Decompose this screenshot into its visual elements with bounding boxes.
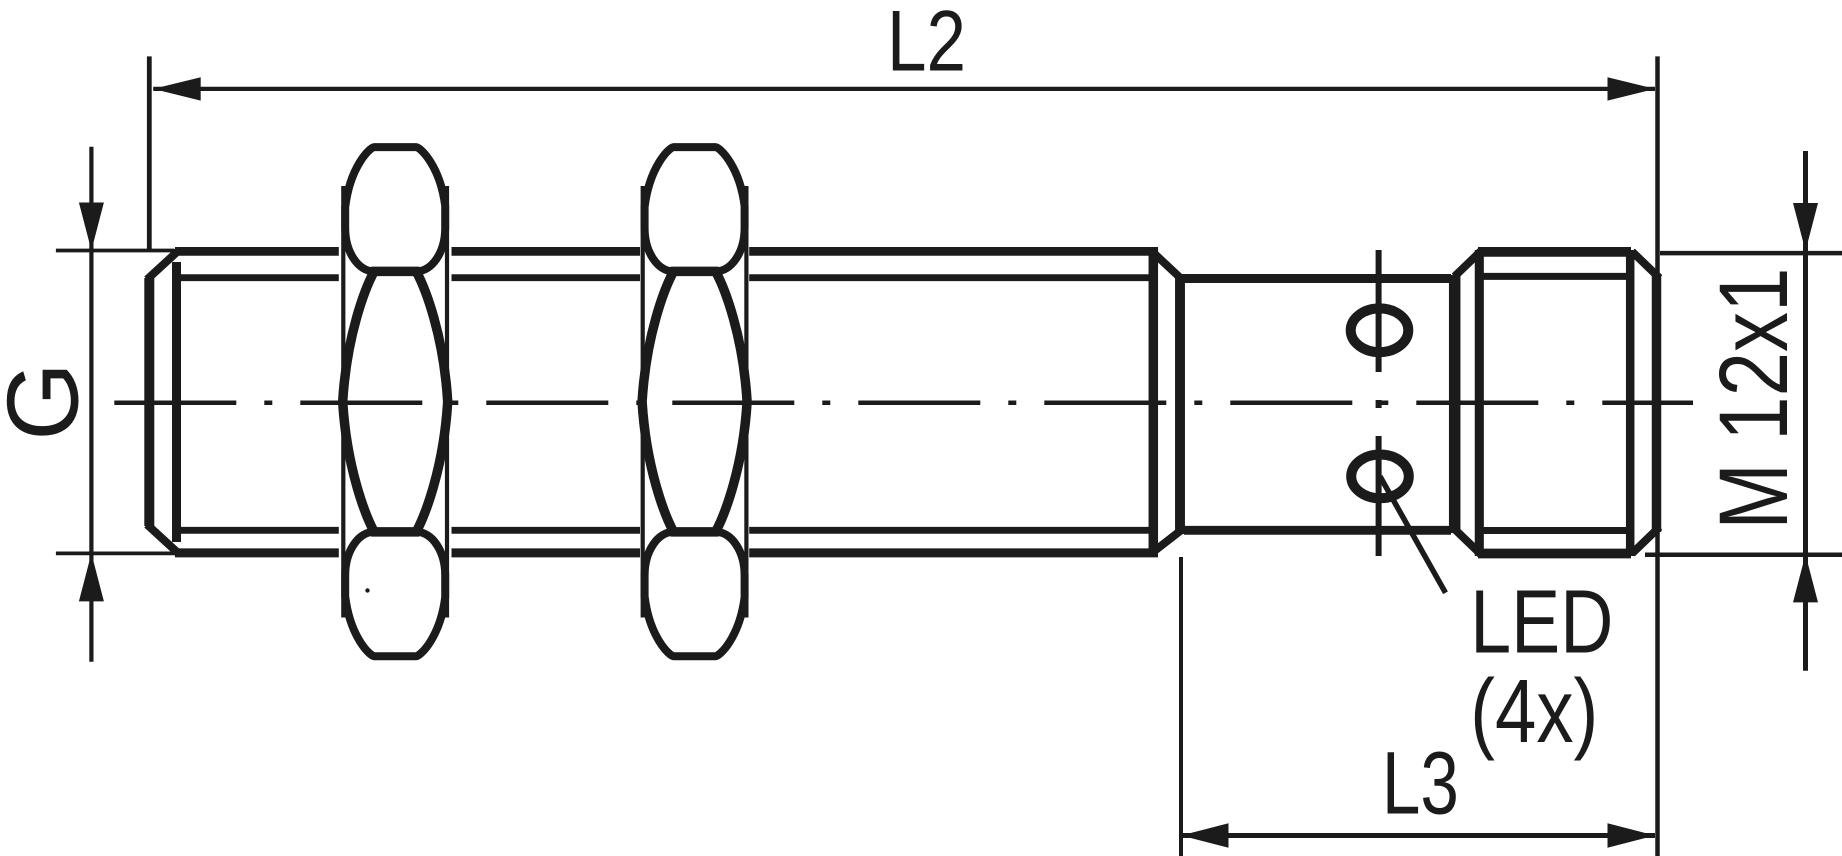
connector top-left chamfer <box>1455 251 1482 277</box>
barrel left chamfer edge vertical <box>172 262 181 542</box>
M12x1 top arrowhead <box>1793 203 1818 251</box>
hex nut 2 bottom chamfer egg <box>645 532 745 656</box>
hex nut 2 right side edge <box>744 186 748 618</box>
barrel left end face edge <box>144 278 154 526</box>
hex nut 1 middle lens <box>343 271 448 532</box>
G top tick line <box>56 249 174 253</box>
M12x1 top extension line <box>1660 251 1842 256</box>
G bottom tick line <box>56 552 176 556</box>
neck left edge <box>1175 274 1185 534</box>
connector right end edge <box>1652 275 1662 532</box>
L3 left arrowhead <box>1181 823 1229 847</box>
connector root bottom line <box>1481 527 1630 534</box>
thread root bottom line of barrel <box>178 527 1150 534</box>
LED leader line <box>1380 476 1446 592</box>
L3 dimension line <box>1182 833 1655 838</box>
small speck artifact <box>365 588 369 592</box>
barrel left top chamfer <box>147 252 178 280</box>
neck bottom line <box>1184 526 1451 535</box>
L3 left extension line <box>1179 557 1183 856</box>
connector left face edge <box>1449 275 1461 533</box>
M12x1 dimension line vertical <box>1803 151 1808 671</box>
connector bottom-left chamfer <box>1455 529 1482 555</box>
connector crest top line <box>1478 247 1631 257</box>
hex nut 1 left side edge <box>341 186 345 618</box>
barrel right end face edge <box>1149 249 1159 556</box>
barrel left bottom chamfer <box>147 525 178 553</box>
G bottom arrowhead <box>79 553 104 601</box>
L3 right arrowhead <box>1608 823 1656 847</box>
white mask under hex nut 2 <box>640 241 749 563</box>
L2 left arrowhead <box>153 77 201 100</box>
right vertical extension line (L2 top, L3 bottom) <box>1655 56 1660 856</box>
hex nut 1 right side edge <box>445 186 449 618</box>
connector top-right chamfer <box>1632 252 1660 279</box>
svg-text:L3: L3 <box>1382 732 1459 832</box>
G dimension line vertical <box>89 147 93 662</box>
connector bottom-right chamfer <box>1632 527 1660 554</box>
G top arrowhead <box>79 203 104 251</box>
L2 dimension line <box>153 87 1655 91</box>
hex nut 2 middle lens <box>642 271 747 532</box>
connector right chamfer edge vertical <box>1626 250 1635 556</box>
connector crest bottom line <box>1478 549 1631 559</box>
step bottom cone line <box>1152 530 1181 553</box>
white mask under hex nut 1 <box>339 241 452 563</box>
thread crest bottom line of barrel <box>175 548 1158 557</box>
svg-text:(4x): (4x) <box>1470 662 1598 762</box>
hex nut 1 top chamfer egg <box>345 147 445 271</box>
LED hole axis line (dash-dot vertical) <box>1376 250 1382 556</box>
thread crest top line of barrel <box>175 247 1158 256</box>
M12x1 bottom arrowhead <box>1793 554 1818 602</box>
L2 left extension line <box>147 56 152 252</box>
hex nut 1 bottom chamfer egg <box>345 532 445 656</box>
neck top line <box>1184 274 1451 283</box>
svg-text:LED: LED <box>1470 573 1613 673</box>
L2 right arrowhead <box>1608 77 1656 100</box>
connector root top line <box>1481 273 1630 280</box>
thread root top line of barrel <box>178 274 1150 281</box>
connector left chamfer edge vertical <box>1475 250 1484 556</box>
M12x1 bottom extension line <box>1645 553 1842 558</box>
hex nut 2 top chamfer egg <box>645 147 745 271</box>
hex nut 2 left side edge <box>641 186 645 618</box>
LED hole top circle <box>1351 308 1409 352</box>
main centerline (dash-dot) <box>114 401 1693 406</box>
svg-text:L2: L2 <box>887 0 966 90</box>
step top cone line <box>1152 251 1181 278</box>
svg-text:G: G <box>0 362 100 441</box>
LED hole bottom circle <box>1351 455 1409 499</box>
svg-text:M 12x1: M 12x1 <box>1699 268 1808 530</box>
